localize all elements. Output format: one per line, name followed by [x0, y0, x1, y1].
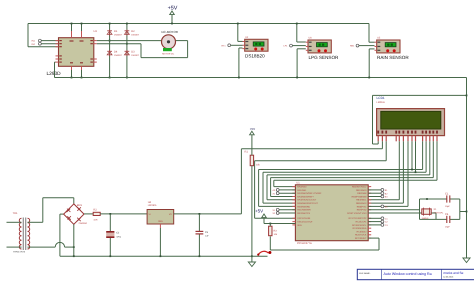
wire secondary bottom	[28, 246, 74, 248]
junction right drop lcd	[466, 95, 468, 97]
title block	[357, 269, 474, 279]
junction bridge S and secondary	[73, 246, 75, 248]
capacitor C4	[445, 213, 451, 229]
wire RAIN gnd to bus	[369, 49, 374, 78]
wire bridge left leg	[60, 214, 64, 256]
junction bus C5	[199, 255, 201, 257]
wire MCU right term B5	[368, 205, 381, 207]
resistor R3	[269, 226, 272, 236]
wire DS18B20 gnd to bus	[239, 48, 243, 78]
wire LCD RW to MCU	[368, 141, 399, 200]
svg-text:RC5/SDO: RC5/SDO	[357, 230, 367, 233]
wire term RA0	[279, 189, 295, 191]
wire R2 to regulator	[100, 213, 147, 215]
wire LCD D1 drop	[411, 141, 413, 169]
junction crystal top	[426, 198, 428, 200]
wire OUT2 to motor	[97, 41, 188, 58]
svg-text:12.05.2015: 12.05.2015	[443, 276, 454, 279]
junction bus gnd1	[71, 77, 73, 79]
svg-text:1N4007: 1N4007	[114, 34, 122, 37]
crystal X1	[422, 208, 445, 220]
svg-text:RE0/AN5/RD: RE0/AN5/RD	[297, 205, 310, 208]
svg-text:1N4007: 1N4007	[131, 34, 139, 37]
wire MCU right term B2	[368, 192, 381, 194]
junction bus C2	[109, 255, 111, 257]
wire EN2 hook to bus	[55, 62, 56, 77]
svg-text:RC6/TX/CK: RC6/TX/CK	[355, 234, 367, 237]
svg-text:1uF: 1uF	[205, 235, 209, 238]
svg-text:RE1/AN6/WR: RE1/AN6/WR	[297, 209, 311, 212]
pins L293D left IN1 IN2 EN1	[56, 41, 62, 47]
svg-text:Auto Window control using Ra: Auto Window control using Ra	[384, 272, 432, 276]
svg-text:C1: C1	[445, 193, 449, 196]
svg-text:U2: U2	[245, 36, 249, 39]
terminal B5	[381, 205, 388, 209]
junction bus gnd2	[81, 77, 83, 79]
svg-text:C2: C2	[385, 221, 389, 224]
svg-text:B1: B1	[385, 189, 388, 192]
svg-text:RB1/AN10: RB1/AN10	[356, 189, 367, 192]
svg-text:B2: B2	[385, 192, 388, 195]
microcontroller U1 PIC16F877A	[295, 182, 368, 246]
svg-text:PIC16F877A: PIC16F877A	[297, 242, 312, 245]
wire LCD VEE	[385, 141, 387, 161]
terminal MCU RA1	[273, 192, 280, 196]
wire +5V to MCU VDD	[264, 223, 295, 225]
wire R3 to button	[269, 236, 271, 250]
svg-text:A0: A0	[273, 189, 276, 192]
resistor R2	[93, 212, 100, 215]
regulator U4 7805	[147, 201, 174, 228]
junction D1 out1	[109, 40, 111, 42]
svg-text:B3: B3	[385, 196, 388, 199]
svg-text:R3: R3	[274, 230, 278, 233]
wire MCU OSC1 to crystal	[368, 209, 419, 211]
pins L293D bottom GND	[70, 63, 83, 70]
svg-text:D2: D2	[131, 30, 135, 33]
svg-text:X1: X1	[273, 209, 276, 212]
wire MCU OSC2 to crystal	[368, 213, 436, 219]
svg-text:+5V: +5V	[168, 6, 178, 12]
wire diode column D2 D3	[126, 24, 128, 78]
wire ground bus bottom	[60, 255, 268, 257]
junction bus bridge	[73, 255, 75, 257]
svg-text:A1: A1	[273, 192, 276, 195]
svg-text:MOTOR-DC: MOTOR-DC	[162, 52, 174, 55]
svg-text:1N4007: 1N4007	[131, 54, 139, 57]
resistor R1	[250, 155, 253, 166]
wire MCU right term low C2	[368, 221, 381, 223]
svg-text:+5V: +5V	[255, 209, 263, 214]
svg-text:DS18B20: DS18B20	[245, 53, 265, 58]
svg-text:LPG SENSOR: LPG SENSOR	[309, 55, 340, 60]
button reset	[257, 251, 271, 256]
svg-text:DC-MOTOR: DC-MOTOR	[162, 30, 179, 34]
sensor U2 DS18B20	[243, 36, 269, 59]
junction rail at +5V	[171, 23, 173, 25]
svg-text:OSC1/CLKIN: OSC1/CLKIN	[297, 217, 310, 220]
wire C5 drop	[198, 214, 200, 256]
svg-text:470u: 470u	[116, 235, 122, 238]
wire input box left	[28, 24, 59, 47]
wire mains primary	[7, 222, 22, 247]
svg-text:RA5/AN4/SS/C2OUT: RA5/AN4/SS/C2OUT	[297, 202, 318, 205]
wire R1 to ground	[251, 166, 253, 258]
svg-text:TRAN-2P2S: TRAN-2P2S	[13, 251, 26, 254]
svg-text:U6: U6	[309, 37, 313, 40]
junction D1 bus	[411, 169, 413, 171]
junction rail DS	[237, 23, 239, 25]
junction C2	[109, 213, 111, 215]
terminal motor input 2	[32, 42, 42, 46]
svg-text:RC7/RX/DT: RC7/RX/DT	[355, 237, 367, 240]
wire term osc1	[279, 209, 295, 211]
junction rail D1	[109, 23, 111, 25]
wire rail corner to RAIN vdd	[369, 24, 375, 43]
svg-text:10R: 10R	[93, 218, 97, 221]
wire +5V line to LCD VDD	[241, 141, 382, 149]
svg-text:VO: VO	[169, 213, 172, 216]
capacitor C5	[196, 231, 210, 238]
svg-text:RA3/AN3/VREF+: RA3/AN3/VREF+	[297, 195, 315, 198]
svg-text:RA2/AN2/VREF-/CVREF: RA2/AN2/VREF-/CVREF	[297, 192, 322, 195]
terminal MCU OSC in2	[273, 212, 280, 216]
svg-text:IN2: IN2	[32, 43, 36, 46]
ground under R1	[248, 258, 255, 267]
svg-text:D1: D1	[114, 30, 118, 33]
junction bus LPG	[296, 77, 298, 79]
junction rail D2	[126, 23, 128, 25]
wire LCD data bus 3	[267, 141, 430, 200]
terminal low C3	[381, 224, 388, 228]
svg-text:TR1: TR1	[13, 212, 18, 215]
wire +5V to R1	[251, 138, 253, 155]
wire LCD data bus 4	[271, 141, 434, 196]
svg-text:RB0/INT/AN12: RB0/INT/AN12	[352, 186, 367, 189]
junction bus reg	[160, 255, 162, 257]
svg-text:RA0/AN0: RA0/AN0	[297, 186, 307, 189]
pins MCU left	[292, 186, 322, 227]
wire bridge bottom to bus	[73, 224, 75, 256]
wire MCU right term low C3	[368, 224, 381, 226]
terminal B1	[381, 189, 388, 193]
wire crystal loop	[420, 199, 467, 219]
svg-text:RN1: RN1	[350, 45, 355, 48]
wire MCU right term low C1	[368, 217, 381, 219]
svg-text:U5: U5	[377, 37, 381, 40]
wire OUT1 to motor	[97, 40, 162, 42]
wire regulator gnd	[159, 228, 161, 256]
wire LCD E to MCU	[368, 141, 403, 203]
terminal B3	[381, 195, 388, 199]
svg-text:D4: D4	[114, 51, 118, 54]
junction R1 bus	[251, 255, 253, 257]
wire term osc2	[279, 212, 295, 214]
svg-text:mocks and Se: mocks and Se	[443, 271, 463, 275]
svg-text:LP1: LP1	[284, 45, 289, 48]
wire MCU right term B1	[368, 189, 381, 191]
svg-text:X1: X1	[434, 208, 438, 211]
junction bus DS	[238, 77, 240, 79]
wire term RA1	[279, 192, 295, 194]
wire bridge out to R2	[84, 213, 93, 215]
junction rail VS	[71, 23, 73, 25]
svg-text:2W005G: 2W005G	[79, 222, 88, 225]
wire hop secondary over bridge drop	[55, 242, 64, 247]
wire secondary top to bridge	[28, 198, 74, 223]
wire C2 drop	[109, 214, 111, 256]
wire terminal1 to IN1	[41, 40, 58, 42]
svg-text:LM7805: LM7805	[148, 204, 157, 207]
svg-text:BR1: BR1	[77, 204, 83, 207]
svg-text:R2: R2	[93, 208, 97, 211]
terminal low C1	[381, 217, 388, 220]
diode D1	[107, 30, 122, 37]
svg-text:C2: C2	[116, 232, 120, 235]
junction bus RAIN	[368, 77, 370, 79]
wire DS terminal to pin	[231, 44, 243, 46]
svg-text:IN1: IN1	[32, 40, 36, 43]
wire RAIN terminal to pin	[359, 45, 375, 47]
power +5V MCU	[255, 209, 266, 224]
svg-text:RC0/T1OSO/T1CKI: RC0/T1OSO/T1CKI	[347, 212, 367, 215]
wire LCD data bus 5	[274, 141, 437, 186]
terminal low C2	[381, 220, 388, 223]
junction D2 bus	[415, 171, 417, 173]
junction R3 top	[269, 223, 271, 225]
capacitor C2 electrolytic	[106, 232, 122, 239]
svg-text:RC3/SCK/SCL: RC3/SCK/SCL	[352, 224, 367, 227]
terminal MCU OSC in1	[273, 208, 280, 212]
svg-text:U3: U3	[94, 30, 98, 33]
svg-text:X2: X2	[273, 212, 276, 215]
svg-text:RB4/AN11: RB4/AN11	[356, 199, 367, 202]
svg-text:RC4/SDI/SDA: RC4/SDI/SDA	[353, 227, 367, 230]
svg-text:C1: C1	[385, 217, 389, 220]
svg-text:15pF: 15pF	[445, 225, 451, 228]
junction rail VSS	[81, 23, 83, 25]
junction D2 out2	[126, 43, 128, 45]
svg-text:10k: 10k	[256, 164, 261, 167]
svg-text:VDD: VDD	[297, 224, 302, 227]
wire +5V rail	[28, 23, 369, 25]
wire LCD data bus 1	[259, 141, 423, 206]
diode D3	[125, 50, 140, 57]
svg-text:RAIN SENSOR: RAIN SENSOR	[377, 55, 409, 60]
wire diode column D1 D4	[109, 24, 111, 78]
wire R3 top	[269, 224, 271, 227]
wire +5V riser	[240, 149, 242, 214]
junction C5	[199, 213, 201, 215]
wire rail to DS18B20 vdd	[238, 24, 243, 42]
wire rail to L293D VSS	[81, 24, 83, 32]
svg-text:RB6/PGC: RB6/PGC	[357, 205, 367, 208]
svg-text:FILE NAME:: FILE NAME:	[359, 272, 371, 275]
junction right drop xtal	[466, 211, 468, 213]
sensor U6 LPG	[306, 37, 339, 61]
svg-text:RA4/T0CKI/C1OUT: RA4/T0CKI/C1OUT	[297, 199, 317, 202]
svg-text:RB2/AN8: RB2/AN8	[357, 192, 367, 195]
terminal LPG data	[284, 44, 293, 48]
terminal DS data	[222, 44, 231, 48]
wire LPG terminal to pin	[292, 45, 305, 47]
wire rail to LPG vdd	[297, 24, 306, 43]
pins L293D top VS VSS	[70, 31, 84, 41]
pins L293D right OUT1-OUT4	[90, 41, 96, 63]
junction bus D3	[126, 77, 128, 79]
terminal MCU RA0	[273, 189, 280, 193]
wire regulator out	[174, 213, 242, 215]
svg-text:U1: U1	[296, 182, 300, 185]
wire LCD D2 drop	[415, 141, 417, 172]
svg-text:RB3/PGM/AN9: RB3/PGM/AN9	[352, 195, 367, 198]
wire +5V stem	[171, 17, 173, 24]
diode D4	[107, 50, 122, 57]
diode D2	[125, 30, 140, 37]
terminal B2	[381, 192, 388, 196]
wire rail to L293D VS	[71, 24, 73, 32]
svg-text:C4: C4	[445, 213, 449, 216]
svg-text:1N4007: 1N4007	[114, 54, 122, 57]
power +5V top	[168, 6, 178, 18]
terminal motor input 1	[32, 39, 42, 43]
svg-text:R1: R1	[245, 151, 249, 154]
wire LPG gnd to bus	[297, 49, 306, 78]
svg-text:RC2/CCP1: RC2/CCP1	[356, 221, 368, 224]
wire LCD data bus 2	[263, 141, 426, 203]
svg-text:RB7/PGD: RB7/PGD	[357, 209, 367, 212]
ground right	[463, 254, 470, 263]
svg-text:RB5/AN13: RB5/AN13	[356, 202, 367, 205]
svg-text:RE2/AN7/CS: RE2/AN7/CS	[297, 212, 310, 215]
sensor U5 RAIN	[375, 37, 410, 61]
capacitor C1	[445, 193, 451, 209]
wire button to MCU loop	[270, 238, 379, 250]
pins MCU right	[347, 186, 371, 241]
junction bus D4	[109, 77, 111, 79]
wire terminal2 to IN2	[41, 43, 58, 45]
svg-text:D3: D3	[131, 51, 135, 54]
wire L293D GND pins to bus	[72, 70, 82, 78]
transformer TR1	[13, 212, 30, 254]
power +5V R1	[250, 127, 256, 138]
wire bus line L2	[255, 161, 387, 219]
svg-text:+5V: +5V	[250, 127, 255, 131]
terminal RAIN data	[350, 44, 359, 48]
motor M1 DC-MOTOR	[162, 30, 179, 55]
svg-text:RT1: RT1	[222, 44, 227, 47]
LCD display LCD1 LM016L	[377, 96, 445, 136]
wire MCU right term B3	[368, 196, 381, 198]
wire LCD VSS wrap	[373, 95, 467, 144]
svg-text:OSC2/CLKOUT: OSC2/CLKOUT	[297, 221, 313, 224]
svg-text:C3: C3	[385, 224, 389, 227]
svg-text:RC1/T1OSI/CCP2: RC1/T1OSI/CCP2	[349, 217, 368, 220]
bridge rectifier BR1	[64, 204, 88, 225]
svg-text:L293D: L293D	[47, 71, 62, 77]
svg-text:CRYSTAL: CRYSTAL	[434, 211, 445, 214]
wire right gnd drop	[466, 78, 468, 254]
wire LCD D0 to MCU	[384, 141, 408, 206]
svg-text:C5: C5	[205, 231, 209, 234]
svg-text:LM016L: LM016L	[377, 101, 386, 104]
svg-text:LCD1: LCD1	[377, 96, 385, 100]
svg-text:15pF: 15pF	[445, 205, 451, 208]
svg-text:10k: 10k	[274, 233, 278, 236]
driver chip U3 L293D	[47, 30, 98, 77]
svg-text:16MHz: 16MHz	[422, 217, 429, 220]
svg-text:GND: GND	[158, 220, 163, 223]
svg-text:RA1/AN1: RA1/AN1	[297, 189, 307, 192]
junction rail LPG	[296, 23, 298, 25]
pins LCD 1-14	[377, 131, 438, 142]
pins L293D left IN3 IN4 EN2	[56, 56, 62, 62]
wire ground bus	[55, 77, 467, 79]
